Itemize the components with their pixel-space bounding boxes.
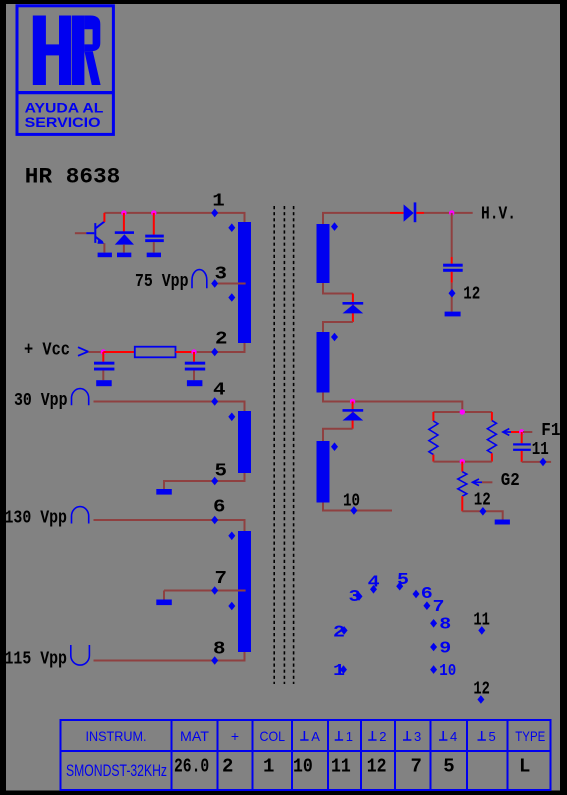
svg-text:SMONDST-32KHz: SMONDST-32KHz: [66, 761, 167, 780]
pinout pin 10: [430, 665, 437, 674]
wire F1 to label: [523, 431, 532, 433]
svg-text:26.0: 26.0: [174, 756, 209, 778]
svg-text:3: 3: [414, 729, 421, 744]
pinout pin 7: [423, 601, 430, 610]
resistor RA left: [429, 412, 438, 462]
symbol arrow G2: [473, 479, 483, 486]
ground G2: [495, 520, 510, 525]
symbol hump 30Vpp: [72, 389, 89, 406]
pinout pin 6: [413, 590, 420, 599]
wire D2 to S2: [323, 322, 353, 332]
pin 5: [211, 477, 218, 486]
wire pin4: [94, 402, 245, 412]
node Vcc junction 1: [101, 349, 106, 354]
SCHEMATIC RIGHT: [317, 202, 561, 524]
svg-text:7: 7: [411, 756, 422, 778]
pin 6: [211, 516, 218, 525]
wire HV down: [451, 213, 453, 257]
svg-text:3: 3: [215, 264, 228, 284]
header perp 2: [368, 731, 376, 740]
svg-text:1: 1: [333, 662, 345, 681]
ground C1: [147, 253, 161, 258]
symbol arrow F1: [503, 429, 511, 436]
wire red into HV diode: [390, 212, 404, 214]
LOGO-GROUP: [17, 6, 113, 135]
transistor Q1: [75, 213, 105, 253]
pinout pin 3: [356, 592, 363, 601]
wire S1 bottom to D2: [323, 283, 353, 294]
logo letter H: [33, 16, 72, 86]
svg-text:2: 2: [215, 330, 228, 350]
pin 7: [211, 586, 218, 595]
pinout pin 5: [396, 582, 403, 591]
svg-text:9: 9: [439, 640, 451, 659]
wire pin7 ground drop: [163, 591, 165, 600]
svg-text:H.V.: H.V.: [481, 204, 516, 224]
svg-text:5: 5: [443, 756, 454, 778]
pinout pin 1: [340, 665, 347, 674]
svg-text:12: 12: [473, 679, 490, 699]
wire red through D2: [352, 294, 354, 323]
capacitor C-F1: [513, 443, 531, 451]
winding S1: [317, 224, 330, 283]
svg-text:1: 1: [346, 729, 353, 744]
header perp 5: [478, 731, 486, 740]
wire red F1 tail: [511, 431, 521, 433]
wire W1 bottom to pin2: [194, 343, 245, 352]
node W3 marker b: [228, 602, 235, 611]
svg-text:+: +: [231, 728, 239, 744]
winding W1 primary: [238, 222, 251, 343]
winding S2: [317, 332, 330, 393]
wire Vcc red right: [176, 351, 195, 353]
svg-text:INSTRUM.: INSTRUM.: [86, 728, 147, 744]
wire red into G2 resistor: [461, 462, 463, 472]
svg-text:SERVICIO: SERVICIO: [25, 114, 101, 130]
svg-text:1: 1: [263, 756, 274, 778]
svg-text:2: 2: [222, 756, 233, 778]
svg-text:10: 10: [293, 756, 313, 778]
wire red into C-F1: [521, 432, 523, 443]
node S2 junction: [350, 399, 355, 404]
diode D1 damper: [115, 213, 134, 253]
svg-text:7: 7: [215, 569, 228, 589]
node S1 marker: [331, 222, 338, 231]
svg-text:F1: F1: [541, 421, 560, 441]
wire red below C-F1: [521, 451, 523, 462]
capacitor C2 Vcc: [94, 352, 114, 380]
capacitor C1: [145, 213, 164, 253]
wire Vcc feed: [89, 351, 104, 353]
svg-text:L: L: [519, 756, 530, 778]
svg-text:115 Vpp: 115 Vpp: [5, 650, 68, 670]
winding W3: [238, 531, 251, 652]
svg-text:1: 1: [212, 192, 225, 212]
node W1 marker a: [228, 223, 235, 232]
TITLE: [25, 164, 121, 189]
svg-text:11: 11: [473, 610, 490, 630]
wire S3 bottom to pin10: [323, 503, 392, 511]
pinout pin 11: [478, 626, 485, 635]
wire red into C-HV: [451, 257, 453, 264]
node F1 junction: [519, 429, 524, 434]
logo divider line: [17, 91, 113, 94]
wire Vcc red left: [103, 351, 135, 353]
node W3 marker a: [228, 532, 235, 541]
node Vcc junction 2: [191, 349, 196, 354]
pin 2: [211, 348, 218, 357]
svg-text:MAT: MAT: [180, 728, 209, 744]
diode D3: [343, 409, 364, 420]
pin 1: [211, 209, 218, 218]
wire red out of HV diode: [416, 212, 424, 214]
capacitor C-HV: [443, 264, 463, 272]
svg-text:G2: G2: [501, 471, 520, 491]
ground Q1: [98, 253, 112, 258]
symbol arrow Vcc: [78, 347, 88, 356]
pin 11: [540, 458, 547, 467]
pinout pin 9: [430, 643, 437, 652]
SCHEMATIC LEFT: [5, 192, 252, 670]
ground C-HV: [445, 312, 461, 317]
header perp 1: [335, 731, 343, 740]
TABLE: [61, 720, 551, 790]
wire red below C-HV: [451, 272, 453, 283]
wire pin7 tap: [164, 590, 246, 592]
symbol hump 75Vpp: [192, 270, 207, 289]
CORE: [274, 206, 293, 684]
svg-text:7: 7: [433, 598, 445, 617]
svg-text:5: 5: [397, 571, 409, 590]
wire G2 arrow tail: [482, 481, 492, 483]
symbol hump 130Vpp: [72, 507, 89, 524]
svg-text:8: 8: [439, 616, 451, 635]
node box top junction: [460, 409, 465, 414]
wire top rail pin1: [104, 213, 244, 222]
header perp A: [300, 731, 308, 740]
wire to HV label: [424, 212, 473, 214]
capacitor C3 Vcc: [185, 352, 205, 380]
table frame: [61, 720, 551, 790]
pinout pin 12: [477, 695, 484, 704]
header perp 4: [439, 731, 447, 740]
svg-text:A: A: [311, 729, 320, 744]
wire S1 top to HV diode: [323, 213, 390, 224]
svg-text:TYPE: TYPE: [515, 728, 545, 744]
svg-text:6: 6: [213, 498, 226, 518]
core line 2: [283, 206, 285, 684]
svg-text:10: 10: [439, 662, 456, 681]
svg-text:12: 12: [367, 756, 387, 778]
PINFIELD: [333, 571, 490, 704]
resistor R-G2: [458, 472, 467, 497]
ground C2: [96, 380, 112, 386]
wire red below G2 resistor: [461, 496, 463, 511]
svg-text:12: 12: [463, 284, 480, 304]
node W1 marker b: [228, 293, 235, 302]
svg-text:4: 4: [450, 729, 457, 744]
svg-text:+ Vcc: + Vcc: [24, 341, 70, 361]
wire S2 bottom rail: [323, 393, 462, 413]
pinout pin 8: [430, 619, 437, 628]
svg-text:130 Vpp: 130 Vpp: [5, 509, 68, 529]
core line 3: [293, 206, 295, 684]
node W2 marker: [228, 413, 235, 422]
wire pin11 rail: [522, 461, 551, 463]
winding W2: [238, 411, 251, 473]
pin 10: [350, 506, 357, 515]
svg-text:4: 4: [368, 573, 380, 592]
wire G2 to ground: [462, 511, 502, 519]
svg-text:3: 3: [349, 588, 361, 607]
pinout pin 4: [370, 585, 377, 594]
diode D2: [343, 302, 364, 313]
wire pin3 tap: [218, 283, 246, 285]
winding S3: [317, 441, 330, 503]
wire brown to ground HV: [451, 283, 453, 312]
svg-text:8: 8: [213, 639, 226, 659]
svg-text:30 Vpp: 30 Vpp: [14, 391, 68, 411]
svg-text:4: 4: [213, 381, 226, 401]
core line 1: [273, 206, 275, 684]
node HV junction: [449, 210, 454, 215]
node top-rail junction 1: [121, 210, 126, 215]
node S3 marker: [331, 442, 338, 451]
pinout pin 2: [341, 626, 348, 635]
svg-text:COL: COL: [260, 728, 286, 744]
wire pin8: [94, 652, 245, 661]
pin 12 G2: [479, 507, 486, 516]
node S2 marker: [331, 333, 338, 342]
logo letter R: [72, 16, 101, 86]
resistor network box bottom wire: [433, 461, 492, 463]
resistor RB right: [487, 412, 496, 462]
svg-text:HR 8638: HR 8638: [25, 164, 121, 189]
svg-text:12: 12: [474, 491, 491, 511]
svg-text:10: 10: [343, 491, 360, 511]
svg-text:5: 5: [215, 461, 228, 481]
svg-text:5: 5: [489, 729, 496, 744]
ground D1: [117, 253, 131, 258]
wire red through D3: [352, 402, 354, 429]
svg-text:11: 11: [532, 440, 549, 460]
wire D3 to S3: [323, 429, 353, 441]
diode D-HV: [404, 202, 417, 222]
ground pin5: [156, 489, 172, 495]
svg-text:75 Vpp: 75 Vpp: [135, 272, 189, 292]
svg-text:2: 2: [379, 729, 386, 744]
wire W2 bottom to pin5: [164, 473, 245, 489]
wire pin6: [94, 520, 245, 531]
pin 12 HV cap: [449, 289, 456, 298]
svg-text:6: 6: [421, 585, 433, 604]
header perp 3: [403, 731, 411, 740]
resistor network box top wire: [433, 411, 492, 413]
symbol dip 115Vpp: [71, 645, 90, 665]
node top-rail junction 2: [151, 210, 156, 215]
pin 4: [211, 397, 218, 406]
svg-text:2: 2: [333, 624, 345, 643]
resistor R-Vcc: [135, 347, 176, 358]
pin 8: [211, 656, 218, 665]
logo outer border: [17, 6, 113, 135]
node box bottom junction: [460, 459, 465, 464]
ground pin7: [156, 600, 172, 606]
pin 3: [211, 279, 218, 288]
ground C3: [187, 380, 203, 386]
svg-text:11: 11: [331, 756, 351, 778]
